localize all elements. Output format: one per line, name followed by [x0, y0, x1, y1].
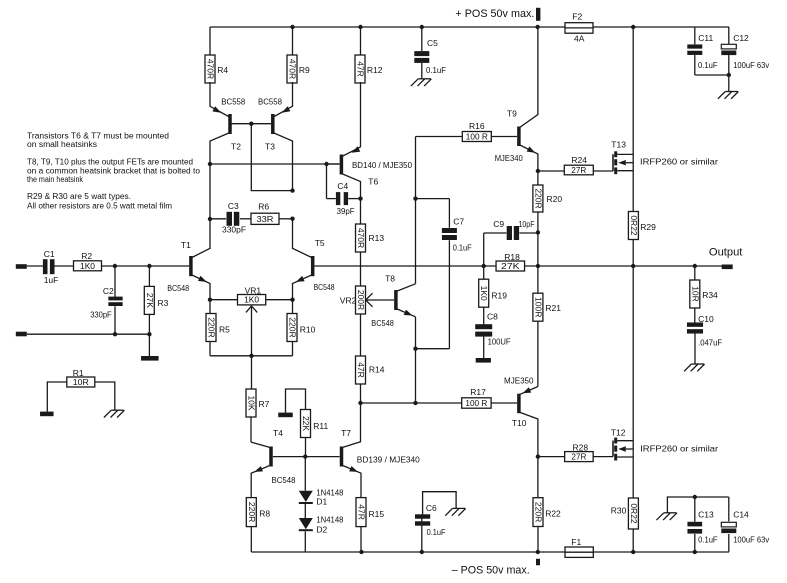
- svg-text:MJE350: MJE350: [504, 375, 534, 385]
- svg-text:100 R: 100 R: [465, 398, 487, 408]
- svg-text:C3: C3: [228, 201, 239, 211]
- svg-text:BC548: BC548: [371, 318, 394, 328]
- svg-text:T5: T5: [315, 238, 325, 248]
- svg-text:R19: R19: [491, 290, 507, 300]
- svg-text:T3: T3: [265, 142, 275, 152]
- svg-text:C5: C5: [427, 38, 438, 48]
- svg-text:10K: 10K: [247, 395, 257, 410]
- svg-text:39pF: 39pF: [337, 206, 355, 216]
- svg-text:47R: 47R: [356, 61, 366, 77]
- svg-text:470R: 470R: [206, 59, 216, 79]
- svg-text:T4: T4: [273, 428, 283, 438]
- svg-text:470R: 470R: [288, 59, 298, 79]
- svg-text:R13: R13: [369, 233, 385, 243]
- svg-text:R9: R9: [299, 65, 310, 75]
- svg-text:0.1uF: 0.1uF: [426, 65, 446, 75]
- svg-text:R3: R3: [158, 298, 169, 308]
- svg-text:C6: C6: [426, 503, 437, 513]
- svg-text:R12: R12: [367, 65, 383, 75]
- svg-text:R34: R34: [702, 290, 718, 300]
- svg-text:27K: 27K: [501, 261, 520, 271]
- svg-text:F2: F2: [572, 11, 582, 21]
- svg-text:D2: D2: [316, 524, 327, 534]
- svg-text:R30: R30: [611, 506, 627, 516]
- svg-text:0R22: 0R22: [629, 215, 639, 236]
- svg-text:BC548: BC548: [167, 283, 189, 293]
- svg-text:– POS 50v max.: – POS 50v max.: [452, 565, 530, 577]
- svg-text:4A: 4A: [574, 34, 585, 44]
- svg-text:C2: C2: [103, 286, 114, 296]
- svg-text:T7: T7: [341, 428, 351, 438]
- svg-text:R2: R2: [81, 251, 92, 261]
- svg-text:on small heatsinks: on small heatsinks: [27, 140, 97, 149]
- svg-text:R1: R1: [73, 368, 84, 378]
- svg-text:1uF: 1uF: [44, 275, 59, 285]
- svg-text:T9: T9: [507, 109, 517, 119]
- svg-text:100 R: 100 R: [466, 132, 488, 142]
- svg-text:R20: R20: [547, 194, 563, 204]
- svg-text:T10: T10: [512, 418, 527, 428]
- svg-text:10pF: 10pF: [519, 219, 535, 229]
- svg-text:10R: 10R: [690, 286, 700, 302]
- svg-text:T12: T12: [611, 427, 626, 437]
- svg-text:220R: 220R: [288, 317, 298, 337]
- svg-text:BC558: BC558: [258, 97, 282, 107]
- svg-text:BD140 / MJE350: BD140 / MJE350: [352, 160, 412, 170]
- svg-text:T1: T1: [181, 240, 191, 250]
- svg-text:VR2: VR2: [340, 295, 357, 305]
- svg-text:100UF: 100UF: [488, 337, 511, 347]
- svg-text:100uF 63v: 100uF 63v: [733, 60, 770, 70]
- svg-text:C12: C12: [733, 33, 749, 43]
- svg-text:IRFP260 or similar: IRFP260 or similar: [640, 444, 718, 454]
- svg-text:+ POS 50v max.: + POS 50v max.: [455, 8, 534, 20]
- svg-text:C9: C9: [493, 219, 504, 229]
- svg-text:R24: R24: [571, 155, 587, 165]
- svg-text:R8: R8: [259, 508, 270, 518]
- svg-text:R17: R17: [470, 387, 486, 397]
- svg-text:220R: 220R: [533, 188, 543, 208]
- svg-text:470R: 470R: [356, 228, 366, 248]
- svg-text:MJE340: MJE340: [495, 153, 523, 163]
- svg-text:C7: C7: [453, 217, 464, 227]
- svg-text:33R: 33R: [257, 214, 274, 224]
- svg-text:R21: R21: [545, 303, 561, 313]
- svg-text:R4: R4: [217, 65, 228, 75]
- svg-text:D1: D1: [316, 497, 327, 507]
- svg-text:T8: T8: [385, 274, 395, 284]
- svg-text:0.1uF: 0.1uF: [427, 527, 446, 537]
- svg-text:220R: 220R: [207, 317, 217, 337]
- svg-text:R22: R22: [545, 508, 561, 518]
- svg-text:R18: R18: [504, 252, 520, 262]
- svg-text:220R: 220R: [247, 502, 257, 522]
- svg-text:R14: R14: [369, 364, 385, 374]
- svg-text:the main heatsink: the main heatsink: [27, 175, 84, 184]
- svg-text:330pF: 330pF: [90, 310, 112, 320]
- svg-text:330pF: 330pF: [222, 224, 246, 234]
- svg-text:27K: 27K: [145, 293, 155, 308]
- svg-text:R29: R29: [640, 222, 656, 232]
- svg-text:R29 & R30 are 5 watt types.: R29 & R30 are 5 watt types.: [27, 192, 131, 201]
- svg-text:C14: C14: [733, 510, 749, 520]
- svg-text:R6: R6: [258, 202, 269, 212]
- svg-text:VR1: VR1: [245, 286, 262, 296]
- svg-text:220R: 220R: [534, 502, 544, 522]
- svg-text:.047uF: .047uF: [698, 338, 722, 348]
- svg-text:All other resistors are 0.5 wa: All other resistors are 0.5 watt metal f…: [27, 202, 172, 211]
- svg-text:1K0: 1K0: [80, 261, 95, 271]
- svg-text:0.1uF: 0.1uF: [698, 535, 718, 545]
- svg-text:47R: 47R: [357, 504, 367, 520]
- svg-text:R7: R7: [259, 399, 270, 409]
- svg-text:10R: 10R: [73, 377, 89, 387]
- svg-text:22K: 22K: [301, 416, 311, 431]
- svg-text:1K0: 1K0: [479, 286, 489, 301]
- svg-text:0R22: 0R22: [629, 503, 639, 524]
- svg-text:R11: R11: [313, 421, 328, 431]
- svg-text:BC548: BC548: [314, 282, 335, 292]
- svg-text:C4: C4: [337, 181, 348, 191]
- svg-text:100uF 63v: 100uF 63v: [733, 535, 770, 545]
- svg-text:0.1uF: 0.1uF: [698, 60, 718, 70]
- svg-text:BC558: BC558: [221, 97, 245, 107]
- svg-text:100R: 100R: [533, 297, 543, 317]
- svg-text:on a common heatsink bracket t: on a common heatsink bracket that is bol…: [27, 166, 201, 175]
- svg-text:T2: T2: [231, 142, 241, 152]
- svg-text:Output: Output: [709, 247, 743, 259]
- svg-text:R10: R10: [300, 324, 316, 334]
- svg-text:BD139 / MJE340: BD139 / MJE340: [357, 454, 420, 464]
- svg-text:R15: R15: [369, 509, 385, 519]
- svg-text:T6: T6: [368, 177, 378, 187]
- svg-text:47R: 47R: [356, 362, 366, 378]
- svg-text:C13: C13: [698, 510, 714, 520]
- svg-text:R16: R16: [469, 121, 485, 131]
- svg-text:C11: C11: [698, 33, 713, 43]
- svg-text:0.1uF: 0.1uF: [453, 242, 472, 252]
- svg-text:T13: T13: [611, 140, 626, 150]
- svg-text:R28: R28: [573, 443, 589, 453]
- svg-text:1N4148: 1N4148: [316, 514, 343, 524]
- svg-text:F1: F1: [571, 537, 581, 547]
- svg-text:C10: C10: [698, 314, 714, 324]
- svg-text:27R: 27R: [571, 165, 586, 175]
- svg-text:R5: R5: [219, 324, 230, 334]
- svg-text:T8, T9, T10 plus the output FE: T8, T9, T10 plus the output FETs are mou…: [27, 157, 193, 166]
- svg-text:IRFP260 or similar: IRFP260 or similar: [640, 157, 718, 167]
- svg-text:C8: C8: [487, 312, 498, 322]
- svg-text:C1: C1: [44, 249, 55, 259]
- svg-text:1K0: 1K0: [244, 295, 259, 305]
- svg-text:BC548: BC548: [272, 475, 296, 485]
- svg-text:27R: 27R: [571, 452, 586, 462]
- svg-text:200R: 200R: [356, 290, 366, 310]
